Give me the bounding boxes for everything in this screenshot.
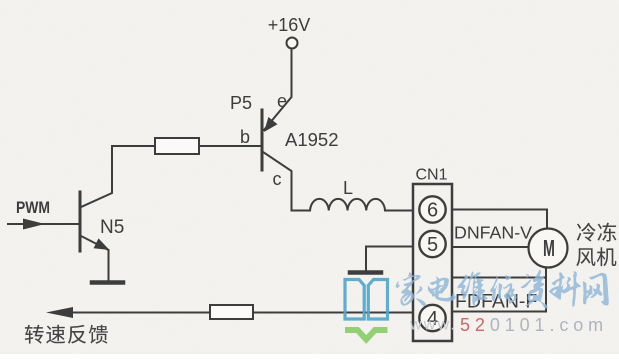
svg-text:+16V: +16V [268,15,311,35]
svg-text:6: 6 [427,200,438,222]
svg-text:N5: N5 [100,217,124,238]
svg-text:CN1: CN1 [415,167,447,184]
svg-text:FDFAN-F: FDFAN-F [455,291,537,313]
svg-text:c: c [273,169,282,189]
svg-text:A1952: A1952 [285,129,339,150]
svg-text:P5: P5 [230,93,252,113]
svg-text:PWM: PWM [16,199,50,218]
svg-text:www.: www. [409,317,457,334]
svg-text:M: M [543,237,555,262]
svg-text:b: b [240,127,250,147]
svg-text:L: L [343,178,353,198]
svg-text:DNFAN-V: DNFAN-V [454,223,532,243]
svg-text:520101.com: 520101.com [460,315,608,335]
svg-text:5: 5 [427,234,438,256]
svg-text:e: e [277,91,287,111]
